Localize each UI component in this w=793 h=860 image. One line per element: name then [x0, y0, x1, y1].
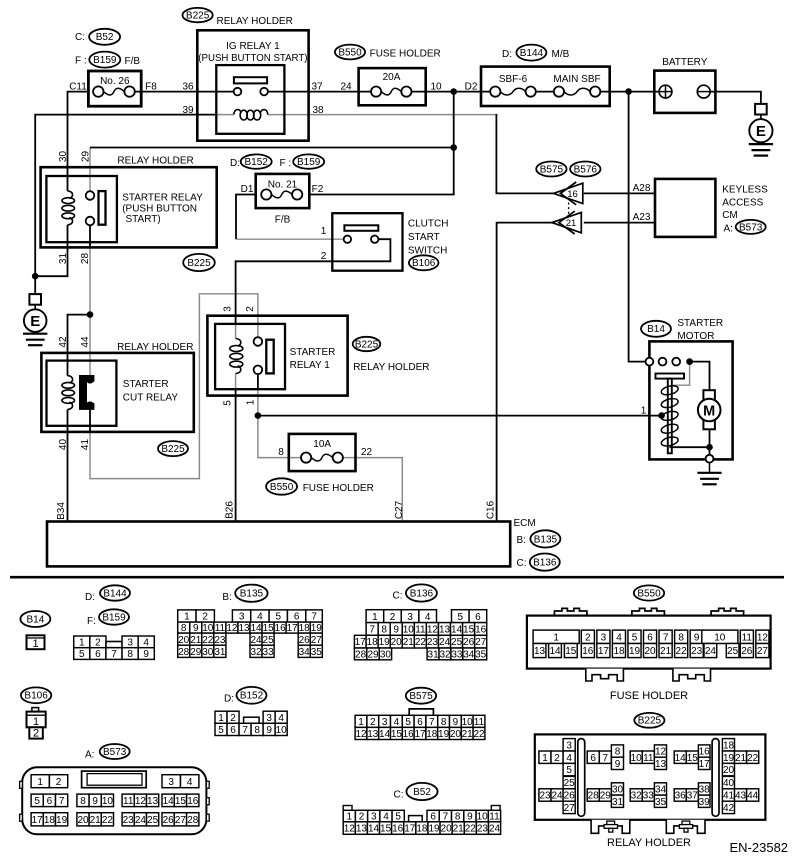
- svg-text:35: 35: [655, 797, 667, 808]
- svg-text:C11: C11: [69, 82, 87, 93]
- svg-text:6: 6: [590, 753, 596, 764]
- svg-text:2: 2: [95, 638, 101, 649]
- svg-text:37: 37: [687, 791, 699, 802]
- svg-text:7: 7: [443, 812, 449, 823]
- svg-text:E: E: [30, 313, 40, 330]
- svg-text:8: 8: [127, 649, 133, 660]
- svg-text:7: 7: [663, 632, 669, 643]
- svg-text:B52: B52: [413, 787, 431, 798]
- svg-text:41: 41: [80, 439, 91, 451]
- svg-text:9: 9: [467, 812, 473, 823]
- svg-text:23: 23: [214, 635, 226, 646]
- svg-text:B135: B135: [240, 589, 264, 600]
- ground (starter motor): [709, 463, 711, 473]
- svg-text:25: 25: [564, 778, 576, 789]
- svg-text:B152: B152: [240, 691, 264, 702]
- svg-text:44: 44: [747, 791, 759, 802]
- svg-text:16: 16: [475, 625, 487, 636]
- svg-text:23: 23: [477, 824, 489, 835]
- svg-text:15: 15: [380, 824, 392, 835]
- starter motor internal wire to motor: [690, 362, 710, 391]
- svg-text:44: 44: [80, 336, 91, 348]
- svg-text:29: 29: [80, 151, 91, 163]
- svg-text:38: 38: [699, 785, 711, 796]
- pin 42: [58, 336, 69, 348]
- svg-text:3: 3: [266, 713, 272, 724]
- svg-text:25: 25: [727, 646, 739, 657]
- svg-text:2: 2: [245, 306, 256, 312]
- pin B34: [56, 502, 67, 520]
- svg-text:F/B: F/B: [125, 56, 141, 67]
- svg-text:5: 5: [458, 612, 464, 623]
- svg-text:40: 40: [58, 439, 69, 451]
- fuse holder label B550: [335, 45, 365, 60]
- svg-text:6: 6: [95, 649, 101, 660]
- svg-text:F/B: F/B: [275, 214, 291, 225]
- starter relay 1 coil: [236, 339, 241, 347]
- svg-text:B159: B159: [93, 55, 117, 66]
- svg-text:33: 33: [643, 791, 655, 802]
- wire: vertical drop from wire 38 corner to connector arrow 16: [496, 114, 553, 193]
- pin 44: [80, 336, 91, 348]
- svg-text:6: 6: [230, 725, 236, 736]
- svg-text:36: 36: [182, 82, 194, 93]
- svg-text:8: 8: [80, 796, 86, 807]
- svg-text:START): START): [126, 214, 161, 225]
- svg-text:B225: B225: [187, 258, 211, 269]
- fuse No. 26 (F/B): [88, 71, 141, 106]
- svg-text:21: 21: [735, 753, 747, 764]
- pin 40: [58, 439, 69, 451]
- svg-text:15: 15: [391, 729, 403, 740]
- svg-text:25: 25: [451, 637, 463, 648]
- svg-text:F:: F:: [87, 616, 96, 627]
- svg-text:15: 15: [175, 796, 187, 807]
- svg-text:SBF-6: SBF-6: [499, 74, 528, 85]
- svg-text:8: 8: [254, 725, 260, 736]
- svg-text:22: 22: [102, 815, 114, 826]
- pin 41: [80, 439, 91, 451]
- svg-text:1: 1: [321, 226, 327, 237]
- svg-text:19: 19: [629, 646, 641, 657]
- pin 2: [245, 306, 256, 312]
- svg-text:KEYLESS: KEYLESS: [722, 185, 768, 196]
- wire 29 (gray): starter relay contact up to horizontal feed: [89, 148, 91, 191]
- svg-text:7: 7: [242, 725, 248, 736]
- svg-text:1: 1: [553, 632, 559, 643]
- svg-text:10: 10: [403, 625, 415, 636]
- B550 pin grid: [533, 630, 769, 658]
- svg-text:7: 7: [311, 612, 317, 623]
- svg-text:B575: B575: [409, 691, 433, 702]
- svg-text:B225: B225: [161, 444, 185, 455]
- svg-text:14: 14: [675, 753, 687, 764]
- svg-text:5: 5: [276, 612, 282, 623]
- svg-text:2: 2: [56, 777, 62, 788]
- junction: pin 29 feed / D2 riser: [450, 144, 457, 151]
- svg-text:32: 32: [250, 647, 262, 658]
- svg-text:RELAY HOLDER: RELAY HOLDER: [117, 156, 193, 167]
- svg-text:4: 4: [383, 812, 389, 823]
- svg-text:3: 3: [601, 632, 607, 643]
- pin B26: [224, 501, 235, 519]
- F/B pin grid: [74, 636, 155, 660]
- svg-text:16: 16: [699, 747, 711, 758]
- svg-text:9: 9: [393, 625, 399, 636]
- svg-text:3: 3: [168, 777, 174, 788]
- svg-text:15: 15: [463, 625, 475, 636]
- svg-text:16: 16: [275, 623, 287, 634]
- wire: between SBF-6 and MAIN SBF: [531, 91, 559, 93]
- B225 pin grid: [539, 739, 759, 814]
- svg-text:26: 26: [463, 637, 475, 648]
- svg-text:19: 19: [723, 753, 735, 764]
- wire 40: starter cut relay coil to ECM pin B34: [67, 410, 69, 522]
- svg-text:43: 43: [735, 791, 747, 802]
- svg-text:3: 3: [382, 717, 388, 728]
- svg-text:19: 19: [379, 637, 391, 648]
- unit STARTER MOTOR B14: [641, 321, 671, 337]
- svg-text:21: 21: [462, 729, 474, 740]
- svg-text:4: 4: [257, 612, 263, 623]
- svg-text:24: 24: [705, 646, 717, 657]
- svg-text:24: 24: [489, 824, 501, 835]
- svg-text:C:: C:: [394, 790, 404, 801]
- svg-text:5: 5: [34, 796, 40, 807]
- B135 pin grid: [178, 610, 323, 658]
- svg-text:23: 23: [691, 646, 703, 657]
- svg-text:18: 18: [613, 646, 625, 657]
- wire 41 (gray): starter cut relay contact loop to starter relay 1 pin 2: [90, 294, 258, 479]
- svg-text:1: 1: [32, 638, 38, 650]
- svg-text:17: 17: [287, 623, 299, 634]
- wire 22 (gray): 10A fuse to ECM pin C27: [338, 458, 403, 522]
- svg-text:42: 42: [58, 336, 69, 348]
- svg-text:3: 3: [222, 306, 233, 312]
- svg-text:9: 9: [92, 796, 98, 807]
- wire: IG relay 1 contact pin 37 to 20A fuse pin 24: [264, 91, 376, 93]
- junction: wires 28/42/44: [87, 311, 94, 318]
- switch: clutch start switch B106: [332, 213, 402, 271]
- svg-text:7: 7: [59, 796, 65, 807]
- svg-text:20: 20: [441, 824, 453, 835]
- svg-text:9: 9: [143, 649, 149, 660]
- svg-text:14: 14: [451, 625, 463, 636]
- svg-text:B14: B14: [647, 324, 665, 335]
- svg-text:23: 23: [539, 791, 551, 802]
- wire: 20A fuse pin 10 to SBF holder D2: [406, 91, 495, 93]
- svg-text:D1: D1: [241, 184, 254, 195]
- pin 28: [80, 253, 91, 265]
- wire: MAIN SBF to battery positive: [595, 91, 665, 93]
- svg-text:11: 11: [415, 625, 426, 636]
- svg-text:7: 7: [111, 649, 117, 660]
- svg-text:A:: A:: [85, 750, 94, 761]
- svg-text:25: 25: [147, 815, 159, 826]
- pin 3: [222, 306, 233, 312]
- fuse holder label B550: [266, 478, 297, 494]
- svg-text:9: 9: [266, 725, 272, 736]
- svg-text:27: 27: [564, 803, 576, 814]
- svg-text:8: 8: [381, 625, 387, 636]
- svg-text:B550: B550: [338, 47, 362, 58]
- svg-text:19: 19: [428, 824, 440, 835]
- svg-text:24: 24: [250, 635, 262, 646]
- svg-text:3: 3: [127, 638, 133, 649]
- B575 pin grid: [355, 715, 485, 740]
- svg-text:18: 18: [416, 824, 428, 835]
- svg-text:1: 1: [372, 612, 378, 623]
- svg-text:23: 23: [123, 815, 135, 826]
- svg-text:1: 1: [33, 716, 39, 728]
- svg-text:11: 11: [742, 632, 753, 643]
- svg-text:9: 9: [694, 632, 700, 643]
- svg-text:8: 8: [615, 747, 621, 758]
- SBF holder box: [481, 67, 610, 106]
- svg-text:33: 33: [263, 647, 275, 658]
- svg-text:22: 22: [361, 447, 373, 458]
- svg-text:22: 22: [415, 637, 427, 648]
- wire (gray): junction down to 10A fuse pin 8: [258, 416, 306, 458]
- connector B575: [406, 688, 436, 704]
- svg-text:M: M: [703, 404, 715, 420]
- svg-text:START: START: [408, 232, 440, 243]
- svg-text:D2: D2: [465, 82, 478, 93]
- svg-text:5: 5: [566, 765, 572, 776]
- svg-text:32: 32: [631, 791, 643, 802]
- node B576: [570, 162, 600, 177]
- svg-text:IG RELAY 1: IG RELAY 1: [226, 41, 280, 52]
- motor M: [703, 390, 715, 429]
- svg-text:4: 4: [425, 612, 431, 623]
- svg-text:B144: B144: [103, 588, 127, 599]
- svg-text:10: 10: [102, 796, 114, 807]
- svg-text:28: 28: [355, 650, 367, 661]
- svg-text:41: 41: [723, 791, 735, 802]
- svg-text:D:: D:: [224, 694, 234, 705]
- svg-text:3: 3: [371, 812, 377, 823]
- svg-text:6: 6: [475, 612, 481, 623]
- svg-text:RELAY HOLDER: RELAY HOLDER: [217, 16, 293, 27]
- connector B225 relay holder: [634, 713, 664, 728]
- svg-text:15: 15: [687, 753, 699, 764]
- junction: main bus / battery riser: [625, 88, 632, 95]
- svg-text:36: 36: [675, 791, 687, 802]
- B573 housing: [22, 767, 206, 834]
- svg-text:(PUSH BUTTON START): (PUSH BUTTON START): [198, 53, 307, 64]
- starter motor internal gray link: [673, 362, 690, 386]
- pin C16: [485, 500, 496, 519]
- wire D1 (black riser): fuse No.21 D1 to clutch start switch level: [236, 195, 256, 240]
- svg-text:B144: B144: [520, 48, 544, 59]
- junction: solenoid pin 1: [658, 412, 665, 419]
- svg-text:28: 28: [588, 791, 600, 802]
- svg-text:A28: A28: [633, 183, 651, 194]
- B550 housing: [554, 608, 587, 615]
- wire: battery negative to earth point E: [704, 92, 761, 104]
- B225 housing: [535, 734, 766, 819]
- relay holder label B225 (top): [183, 8, 213, 22]
- svg-text:D:: D:: [230, 158, 240, 169]
- svg-text:B576: B576: [574, 164, 598, 175]
- svg-text:STARTER: STARTER: [290, 347, 336, 358]
- svg-text:20: 20: [178, 635, 190, 646]
- svg-text:10: 10: [462, 717, 474, 728]
- svg-text:4: 4: [394, 717, 400, 728]
- svg-text:1: 1: [79, 638, 85, 649]
- svg-text:No. 26: No. 26: [100, 76, 130, 87]
- earth point E (battery side): [755, 104, 767, 115]
- svg-text:30: 30: [202, 647, 214, 658]
- svg-text:1: 1: [184, 612, 190, 623]
- wire 5: starter relay 1 coil to ECM pin B26: [235, 374, 237, 390]
- svg-text:2: 2: [33, 728, 39, 740]
- svg-text:RELAY HOLDER: RELAY HOLDER: [353, 362, 429, 373]
- wire: D2 riser from main bus down to fuse No.21 pin F2: [309, 92, 453, 195]
- fuse 20A: [359, 68, 426, 105]
- svg-text:21: 21: [566, 218, 577, 229]
- svg-text:B573: B573: [103, 747, 127, 758]
- svg-text:2: 2: [230, 713, 236, 724]
- svg-text:B225: B225: [355, 339, 379, 350]
- svg-text:23: 23: [427, 637, 439, 648]
- svg-text:22: 22: [747, 753, 759, 764]
- svg-text:12: 12: [355, 729, 367, 740]
- svg-text:4: 4: [566, 753, 572, 764]
- svg-text:40: 40: [723, 778, 735, 789]
- wire: motor to ground terminal: [709, 429, 711, 455]
- svg-text:17: 17: [32, 815, 44, 826]
- svg-text:19: 19: [56, 815, 68, 826]
- svg-text:10: 10: [477, 812, 489, 823]
- svg-text:12: 12: [655, 747, 667, 758]
- B573 pin grid: [31, 771, 199, 826]
- svg-text:13: 13: [534, 646, 546, 657]
- svg-text:19: 19: [438, 729, 450, 740]
- svg-text:27: 27: [175, 815, 187, 826]
- svg-text:31: 31: [58, 253, 69, 265]
- svg-text:STARTER: STARTER: [677, 318, 723, 329]
- svg-text:20: 20: [77, 815, 89, 826]
- svg-text:26: 26: [564, 791, 576, 802]
- svg-text:B106: B106: [412, 258, 436, 269]
- svg-text:18: 18: [723, 740, 735, 751]
- pin 5: [222, 400, 233, 406]
- svg-text:B52: B52: [96, 32, 114, 43]
- svg-text:18: 18: [44, 815, 56, 826]
- svg-text:21: 21: [190, 635, 202, 646]
- svg-text:22: 22: [202, 635, 214, 646]
- svg-text:3: 3: [407, 612, 413, 623]
- svg-text:18: 18: [367, 637, 379, 648]
- unit ECM: [47, 522, 510, 567]
- svg-text:11: 11: [643, 753, 654, 764]
- svg-text:C:: C:: [75, 32, 85, 43]
- solenoid plunger: [656, 374, 685, 379]
- svg-text:B152: B152: [245, 157, 269, 168]
- wire 1 (gray): starter relay 1 contact down to junction: [257, 374, 259, 389]
- svg-text:2: 2: [370, 717, 376, 728]
- svg-text:7: 7: [429, 717, 435, 728]
- svg-text:CM: CM: [722, 210, 738, 221]
- svg-text:CLUTCH: CLUTCH: [408, 218, 449, 229]
- svg-text:CUT RELAY: CUT RELAY: [123, 393, 179, 404]
- svg-text:13: 13: [356, 824, 368, 835]
- svg-text:STARTER: STARTER: [123, 379, 169, 390]
- svg-text:B136: B136: [533, 558, 557, 569]
- svg-text:17: 17: [598, 646, 610, 657]
- wire 38 (gray): IG relay coil right side toward connector arrow 16: [268, 114, 497, 116]
- svg-text:26: 26: [299, 635, 311, 646]
- svg-text:4: 4: [187, 777, 193, 788]
- svg-text:B136: B136: [410, 588, 434, 599]
- dotted pair link between arrows: [568, 203, 570, 218]
- svg-text:16: 16: [392, 824, 404, 835]
- svg-text:FUSE HOLDER: FUSE HOLDER: [303, 483, 374, 494]
- svg-text:21: 21: [90, 815, 102, 826]
- svg-text:5: 5: [79, 649, 85, 660]
- svg-text:31: 31: [428, 650, 440, 661]
- wire A28: connector arrow 16 to keyless access CM: [584, 192, 655, 194]
- svg-text:B573: B573: [739, 222, 763, 233]
- connector arrow 16 (B575): [554, 183, 583, 203]
- svg-text:ECM: ECM: [514, 518, 536, 529]
- svg-text:13: 13: [238, 623, 250, 634]
- svg-text:16: 16: [582, 646, 594, 657]
- junction: starter relay 1 pin 1 / 10A fuse branch: [255, 412, 262, 419]
- B52 pin grid: [343, 806, 500, 835]
- svg-text:13: 13: [367, 729, 379, 740]
- svg-text:31: 31: [612, 797, 624, 808]
- svg-text:1: 1: [245, 399, 256, 405]
- svg-text:26: 26: [163, 815, 175, 826]
- svg-text:34: 34: [299, 647, 311, 658]
- svg-text:RELAY HOLDER: RELAY HOLDER: [607, 837, 691, 849]
- svg-text:7: 7: [603, 753, 609, 764]
- relay IG RELAY 1 (PUSH BUTTON START): [197, 30, 308, 140]
- svg-text:10: 10: [631, 753, 643, 764]
- svg-text:D:: D:: [502, 49, 512, 60]
- svg-text:C27: C27: [394, 500, 405, 519]
- starter motor ground terminal: [706, 455, 714, 463]
- svg-text:2: 2: [585, 632, 591, 643]
- svg-text:9: 9: [615, 759, 621, 770]
- svg-text:32: 32: [439, 650, 451, 661]
- svg-text:6: 6: [294, 612, 300, 623]
- svg-text:STARTER RELAY: STARTER RELAY: [122, 193, 203, 204]
- svg-text:13: 13: [439, 625, 451, 636]
- junction: main bus / D2 riser: [450, 88, 457, 95]
- svg-text:FUSE HOLDER: FUSE HOLDER: [370, 48, 441, 59]
- svg-text:2: 2: [554, 753, 560, 764]
- svg-text:BATTERY: BATTERY: [662, 57, 708, 68]
- svg-text:10: 10: [276, 725, 288, 736]
- svg-text:39: 39: [699, 797, 711, 808]
- svg-text:10A: 10A: [313, 439, 331, 450]
- svg-text:B159: B159: [102, 612, 126, 623]
- svg-text:30: 30: [58, 151, 69, 163]
- svg-text:B575: B575: [540, 164, 564, 175]
- svg-text:1: 1: [641, 406, 647, 417]
- relay STARTER RELAY 1: [207, 316, 347, 396]
- svg-text:27: 27: [757, 646, 769, 657]
- svg-text:3: 3: [566, 740, 572, 751]
- svg-text:21: 21: [403, 637, 415, 648]
- svg-text:9: 9: [453, 717, 459, 728]
- svg-text:24: 24: [439, 637, 451, 648]
- svg-text:B14: B14: [27, 614, 45, 625]
- svg-text:39: 39: [182, 105, 194, 116]
